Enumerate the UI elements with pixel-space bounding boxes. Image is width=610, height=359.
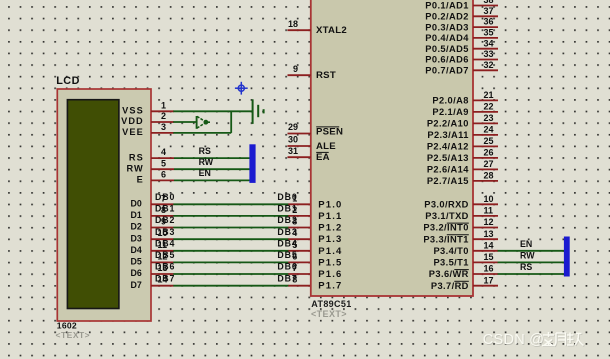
svg-text:P1.1: P1.1 — [318, 211, 342, 222]
MCU pin 25 stub (P2.4) — [473, 145, 498, 147]
svg-text:4: 4 — [161, 147, 166, 157]
svg-text:P2.2/A10: P2.2/A10 — [427, 119, 469, 129]
LCD pin 3 (VEE) stub — [151, 132, 174, 134]
MCU pin 18 stub (XTAL2) — [288, 29, 311, 31]
svg-text:2: 2 — [292, 205, 297, 215]
svg-text:P3.3/INT1: P3.3/INT1 — [423, 234, 468, 244]
svg-text:26: 26 — [484, 148, 494, 158]
wire DB0 (LCD D0 to MCU P1.0) — [173, 203, 288, 205]
svg-text:EN: EN — [199, 168, 211, 178]
wire DB7 (LCD D7 to MCU P1.7) — [173, 285, 288, 287]
MCU pin 29 stub (PSEN) — [288, 133, 311, 135]
svg-text:P3.2/INT0: P3.2/INT0 — [423, 223, 468, 233]
svg-text:P1.7: P1.7 — [318, 281, 342, 292]
svg-text:P1.5: P1.5 — [318, 257, 342, 268]
svg-text:34: 34 — [484, 38, 494, 48]
power terminal arrow on VDD net — [197, 116, 210, 129]
svg-text:27: 27 — [484, 159, 494, 169]
svg-text:P0.7/AD7: P0.7/AD7 — [425, 66, 469, 76]
svg-text:P2.7/A15: P2.7/A15 — [427, 176, 469, 186]
svg-text:25: 25 — [484, 136, 494, 146]
svg-text:P1.4: P1.4 — [318, 246, 342, 257]
svg-text:31: 31 — [288, 146, 298, 156]
svg-text:D1: D1 — [131, 210, 142, 220]
svg-text:D0: D0 — [131, 199, 142, 209]
LCD pin 11 (D4) stub — [151, 250, 174, 252]
svg-text:P2.4/A12: P2.4/A12 — [427, 142, 469, 152]
svg-text:VSS: VSS — [122, 106, 144, 116]
svg-text:18: 18 — [288, 19, 298, 29]
svg-text:P2.0/A8: P2.0/A8 — [432, 96, 468, 106]
svg-text:P3.0/RXD: P3.0/RXD — [424, 200, 469, 210]
svg-text:RW: RW — [520, 250, 535, 260]
wire VSS (pin1) to ground — [173, 110, 252, 112]
svg-text:14: 14 — [484, 240, 494, 250]
MCU pin 5 stub (P1.4) — [288, 250, 311, 252]
svg-text:P3.5/T1: P3.5/T1 — [433, 258, 468, 268]
svg-text:1: 1 — [292, 193, 297, 203]
MCU AT89C51 body — [311, 0, 473, 296]
svg-text:12: 12 — [484, 217, 494, 227]
MCU pin 8 stub (P1.7) — [288, 285, 311, 287]
MCU pin 10 stub (P3.0/RXD) — [473, 203, 498, 205]
wire DB3 (LCD D3 to MCU P1.3) — [173, 238, 288, 240]
svg-text:30: 30 — [288, 135, 298, 145]
svg-text:P1.0: P1.0 — [318, 199, 342, 210]
MCU pin 14 stub (P3.4/T0) — [473, 250, 498, 252]
svg-text:3: 3 — [161, 122, 166, 132]
svg-text:7: 7 — [161, 193, 166, 203]
svg-text:XTAL2: XTAL2 — [316, 25, 347, 36]
svg-text:P0.5/AD5: P0.5/AD5 — [425, 44, 469, 54]
svg-text:5: 5 — [292, 240, 297, 250]
LCD pin 14 (D7) stub — [151, 285, 174, 287]
wire LCD pin 5 to terminal, net RW — [174, 168, 250, 170]
svg-text:P2.6/A14: P2.6/A14 — [427, 165, 469, 175]
svg-text:P0.6/AD6: P0.6/AD6 — [425, 55, 469, 65]
MCU pin 17 stub (P3.7/RD) — [473, 285, 498, 287]
svg-text:VDD: VDD — [121, 116, 144, 126]
svg-text:P0.4/AD4: P0.4/AD4 — [425, 33, 469, 43]
LCD pin 7 (D0) stub — [151, 203, 174, 205]
svg-text:PSEN: PSEN — [316, 127, 343, 138]
svg-text:EN: EN — [520, 239, 532, 249]
MCU pin 34 stub (P0.5/AD5) — [473, 48, 498, 50]
svg-text:16: 16 — [484, 264, 494, 274]
svg-text:D7: D7 — [131, 280, 142, 290]
wire LCD pin 4 to terminal, net RS — [174, 157, 250, 159]
svg-text:P0.2/AD2: P0.2/AD2 — [425, 12, 469, 22]
svg-text:P2.1/A9: P2.1/A9 — [432, 107, 468, 117]
svg-text:9: 9 — [293, 64, 298, 74]
origin marker (blue crosshair) — [235, 82, 248, 95]
svg-text:35: 35 — [484, 28, 494, 38]
svg-text:38: 38 — [484, 0, 494, 5]
MCU pin 15 stub (P3.5/T1) — [473, 261, 498, 263]
svg-text:15: 15 — [484, 252, 494, 262]
MCU pin 11 stub (P3.1/TXD) — [473, 215, 498, 217]
wire DB2 (LCD D2 to MCU P1.2) — [173, 227, 288, 229]
wire VEE riser to VSS net — [230, 111, 232, 133]
wire MCU pin 15 to right terminal, net RW — [498, 261, 564, 263]
svg-text:8: 8 — [161, 205, 166, 215]
svg-text:P3.1/TXD: P3.1/TXD — [425, 211, 469, 221]
svg-text:6: 6 — [292, 251, 297, 261]
svg-text:4: 4 — [292, 228, 297, 238]
wire MCU pin 16 to right terminal, net RS — [498, 273, 564, 275]
svg-text:EA: EA — [316, 152, 330, 163]
MCU pin 7 stub (P1.6) — [288, 273, 311, 275]
LCD pin 1 (VSS) stub — [151, 110, 174, 112]
MCU pin 24 stub (P2.3) — [473, 134, 498, 136]
ground symbol — [253, 99, 264, 124]
LCD pin 12 (D5) stub — [151, 261, 174, 263]
svg-text:P1.6: P1.6 — [318, 269, 342, 280]
MCU pin 37 stub (P0.2/AD2) — [473, 15, 498, 17]
watermark CJK glyphs — [543, 333, 585, 347]
svg-text:P1.2: P1.2 — [318, 223, 342, 234]
svg-text:E: E — [137, 175, 144, 185]
MCU pin 1 stub (P1.0) — [288, 203, 311, 205]
wire DB1 (LCD D1 to MCU P1.1) — [173, 215, 288, 217]
svg-text:33: 33 — [484, 49, 494, 59]
LCD pin 4 (RS) stub — [151, 157, 174, 159]
wire DB6 (LCD D6 to MCU P1.6) — [173, 273, 288, 275]
MCU pin 26 stub (P2.5) — [473, 157, 498, 159]
svg-text:VEE: VEE — [122, 127, 144, 137]
svg-text:24: 24 — [484, 125, 494, 135]
svg-text:37: 37 — [484, 6, 494, 16]
MCU pin 13 stub (P3.3/INT1) — [473, 238, 498, 240]
MCU pin 30 stub (ALE) — [288, 145, 311, 147]
LCD pin 10 (D3) stub — [151, 238, 174, 240]
LCD pin 9 (D2) stub — [151, 227, 174, 229]
svg-text:P2.5/A13: P2.5/A13 — [427, 153, 469, 163]
svg-text:29: 29 — [288, 122, 298, 132]
svg-text:P0.1/AD1: P0.1/AD1 — [425, 1, 469, 11]
MCU pin 3 stub (P1.2) — [288, 227, 311, 229]
svg-text:36: 36 — [484, 17, 494, 27]
MCU pin 9 stub (RST) — [288, 74, 311, 76]
MCU pin 36 stub (P0.3/AD3) — [473, 26, 498, 28]
right terminal bar (blue) — [564, 237, 570, 277]
svg-text:D6: D6 — [131, 268, 142, 278]
MCU pin 28 stub (P2.7) — [473, 180, 498, 182]
MCU pin 4 stub (P1.3) — [288, 238, 311, 240]
LCD pin 13 (D6) stub — [151, 273, 174, 275]
svg-text:LCD: LCD — [56, 75, 80, 87]
svg-text:13: 13 — [484, 229, 494, 239]
svg-text:RW: RW — [199, 157, 214, 167]
svg-text:3: 3 — [292, 217, 297, 227]
svg-text:CSDN @: CSDN @ — [483, 332, 544, 348]
wire VEE (pin3) horizontal — [173, 132, 231, 134]
svg-text:D2: D2 — [131, 222, 142, 232]
svg-text:P0.3/AD3: P0.3/AD3 — [425, 22, 469, 32]
svg-text:2: 2 — [161, 111, 166, 121]
MCU pin 32 stub (P0.7/AD7) — [473, 69, 498, 71]
LCD LM016L body — [57, 89, 151, 321]
svg-text:P1.3: P1.3 — [318, 234, 342, 245]
svg-text:1602: 1602 — [57, 321, 77, 331]
svg-text:9: 9 — [161, 217, 166, 227]
svg-text:ALE: ALE — [316, 141, 336, 152]
svg-text:AT89C51: AT89C51 — [311, 299, 351, 309]
svg-text:10: 10 — [158, 228, 168, 238]
svg-text:RW: RW — [126, 163, 143, 173]
svg-text:RS: RS — [199, 146, 211, 156]
svg-text:<TEXT>: <TEXT> — [56, 330, 91, 340]
svg-text:8: 8 — [292, 275, 297, 285]
wire MCU pin 14 to right terminal, net EN — [498, 250, 564, 252]
svg-text:RS: RS — [129, 152, 144, 162]
svg-text:11: 11 — [158, 240, 168, 250]
svg-text:5: 5 — [161, 158, 166, 168]
MCU pin 33 stub (P0.6/AD6) — [473, 59, 498, 61]
svg-text:D5: D5 — [131, 257, 142, 267]
svg-text:12: 12 — [158, 251, 168, 261]
svg-text:P3.4/T0: P3.4/T0 — [433, 246, 468, 256]
svg-text:<TEXT>: <TEXT> — [311, 309, 347, 319]
svg-text:P3.6/WR: P3.6/WR — [429, 269, 469, 279]
LCD pin 5 (RW) stub — [151, 168, 174, 170]
wire VDD (pin2) to power terminal — [173, 121, 196, 123]
MCU pin 12 stub (P3.2/INT0) — [473, 227, 498, 229]
svg-text:D4: D4 — [131, 245, 142, 255]
svg-text:P2.3/A11: P2.3/A11 — [427, 130, 468, 140]
MCU pin 21 stub (P2.0) — [473, 99, 498, 101]
svg-text:22: 22 — [484, 102, 494, 112]
MCU pin 23 stub (P2.2) — [473, 122, 498, 124]
MCU pin 38 stub (P0.1/AD1) — [473, 5, 498, 7]
svg-text:1: 1 — [161, 100, 166, 110]
svg-text:32: 32 — [484, 60, 494, 70]
MCU pin 16 stub (P3.6/WR) — [473, 273, 498, 275]
svg-text:RS: RS — [520, 262, 532, 272]
MCU pin 27 stub (P2.6) — [473, 168, 498, 170]
LCD pin 8 (D1) stub — [151, 215, 174, 217]
svg-text:21: 21 — [484, 90, 494, 100]
svg-text:RST: RST — [316, 70, 336, 81]
LCD screen — [67, 100, 119, 309]
wire DB5 (LCD D5 to MCU P1.5) — [173, 261, 288, 263]
svg-text:P3.7/RD: P3.7/RD — [431, 281, 469, 291]
MCU pin 2 stub (P1.1) — [288, 215, 311, 217]
MCU pin 6 stub (P1.5) — [288, 261, 311, 263]
svg-text:7: 7 — [292, 263, 297, 273]
svg-text:23: 23 — [484, 113, 494, 123]
svg-text:11: 11 — [484, 206, 494, 216]
svg-text:D3: D3 — [131, 233, 142, 243]
svg-text:6: 6 — [161, 170, 166, 180]
MCU pin 31 stub (EA) — [288, 156, 311, 158]
LCD pin 6 (E) stub — [151, 179, 174, 181]
wire DB4 (LCD D4 to MCU P1.4) — [173, 250, 288, 252]
wire LCD pin 6 to terminal, net EN — [174, 179, 250, 181]
svg-text:14: 14 — [158, 275, 168, 285]
MCU pin 22 stub (P2.1) — [473, 111, 498, 113]
LCD pin 2 (VDD) stub — [151, 121, 174, 123]
svg-text:28: 28 — [484, 171, 494, 181]
left terminal bar (blue) — [249, 144, 255, 183]
svg-text:13: 13 — [158, 263, 168, 273]
svg-text:10: 10 — [484, 194, 494, 204]
MCU pin 35 stub (P0.4/AD4) — [473, 37, 498, 39]
svg-text:17: 17 — [484, 275, 494, 285]
